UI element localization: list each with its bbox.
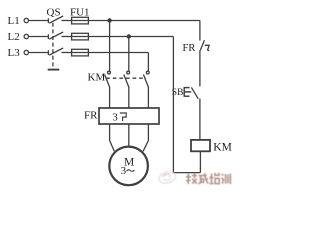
wire QS to FU1 row3 [62,52,72,54]
fuse FU1 element 2 [72,33,89,40]
wire FR box to motor left [110,124,115,151]
relay FR heater box [99,108,159,124]
relay FR NC contact [200,40,209,51]
terminal L1 [24,18,28,22]
svg-text:L3: L3 [8,47,21,59]
switch QS pole 3 [48,48,63,55]
wire contact2 to FR box [128,87,130,108]
wire contact1 to FR box [109,87,111,108]
glyph 成 [198,173,208,184]
contactor KM linkage dashed [106,77,146,79]
glyph 训 [221,174,230,184]
relay FR heater element symbol [120,113,126,121]
wire phase A down [109,21,111,72]
svg-text:FR: FR [183,43,196,54]
glyph 培 [209,173,219,184]
wire L2 to QS [29,36,49,38]
svg-text:QS: QS [47,6,61,18]
svg-text:KM: KM [88,72,106,84]
contactor KM main contact 3 [143,71,149,87]
wire KM coil down [199,151,201,172]
svg-text:3: 3 [113,112,118,123]
svg-text:L2: L2 [8,31,20,43]
wire row3 [88,52,148,54]
button SB contact blade [191,87,198,98]
wire L3 to QS [29,52,49,54]
wire phase B down [128,37,130,72]
wire contact3 to FR box [147,87,149,108]
contactor KM main contact 1 [105,71,111,87]
switch QS pole 1 [48,16,63,23]
wire control bottom [173,172,200,174]
wire L1 to QS [29,20,49,22]
svg-text:KM: KM [213,141,232,153]
wire row2 [88,36,173,38]
wire QS to FU1 row2 [62,36,72,38]
fuse FU1 element 1 [72,17,89,24]
terminal L3 [24,50,28,54]
wire QS to FU1 row1 [62,20,72,22]
watermark text 技成培训 [186,173,231,184]
junction dot row1 [107,18,111,22]
watermark logo swoosh [158,170,177,185]
svg-text:L1: L1 [8,15,20,27]
wire FR box to motor right [143,124,148,151]
switch QS linkage dashed [52,23,54,69]
wire control left branch [172,37,174,173]
wire phase C down [147,53,149,72]
coil KM rectangle [191,140,210,151]
terminal L2 [24,34,28,38]
contactor KM main contact 2 [124,71,130,87]
junction dot row2 [127,34,131,38]
switch QS pole 2 [48,32,63,39]
wire FR contact to SB [199,50,201,86]
wire row1 to control branch [88,20,199,22]
fuse FU1 element 3 [72,49,89,56]
svg-text:3: 3 [121,165,127,177]
svg-text:FU1: FU1 [70,6,90,18]
motor M circle [109,147,148,186]
glyph 技 [186,173,197,184]
wire control right branch upper [199,21,201,41]
svg-text:FR: FR [84,109,98,121]
wire FR box to motor middle [128,124,130,146]
wire SB to KM coil [199,99,201,140]
switch QS handle bar [48,69,60,71]
button SB cap [184,87,192,96]
